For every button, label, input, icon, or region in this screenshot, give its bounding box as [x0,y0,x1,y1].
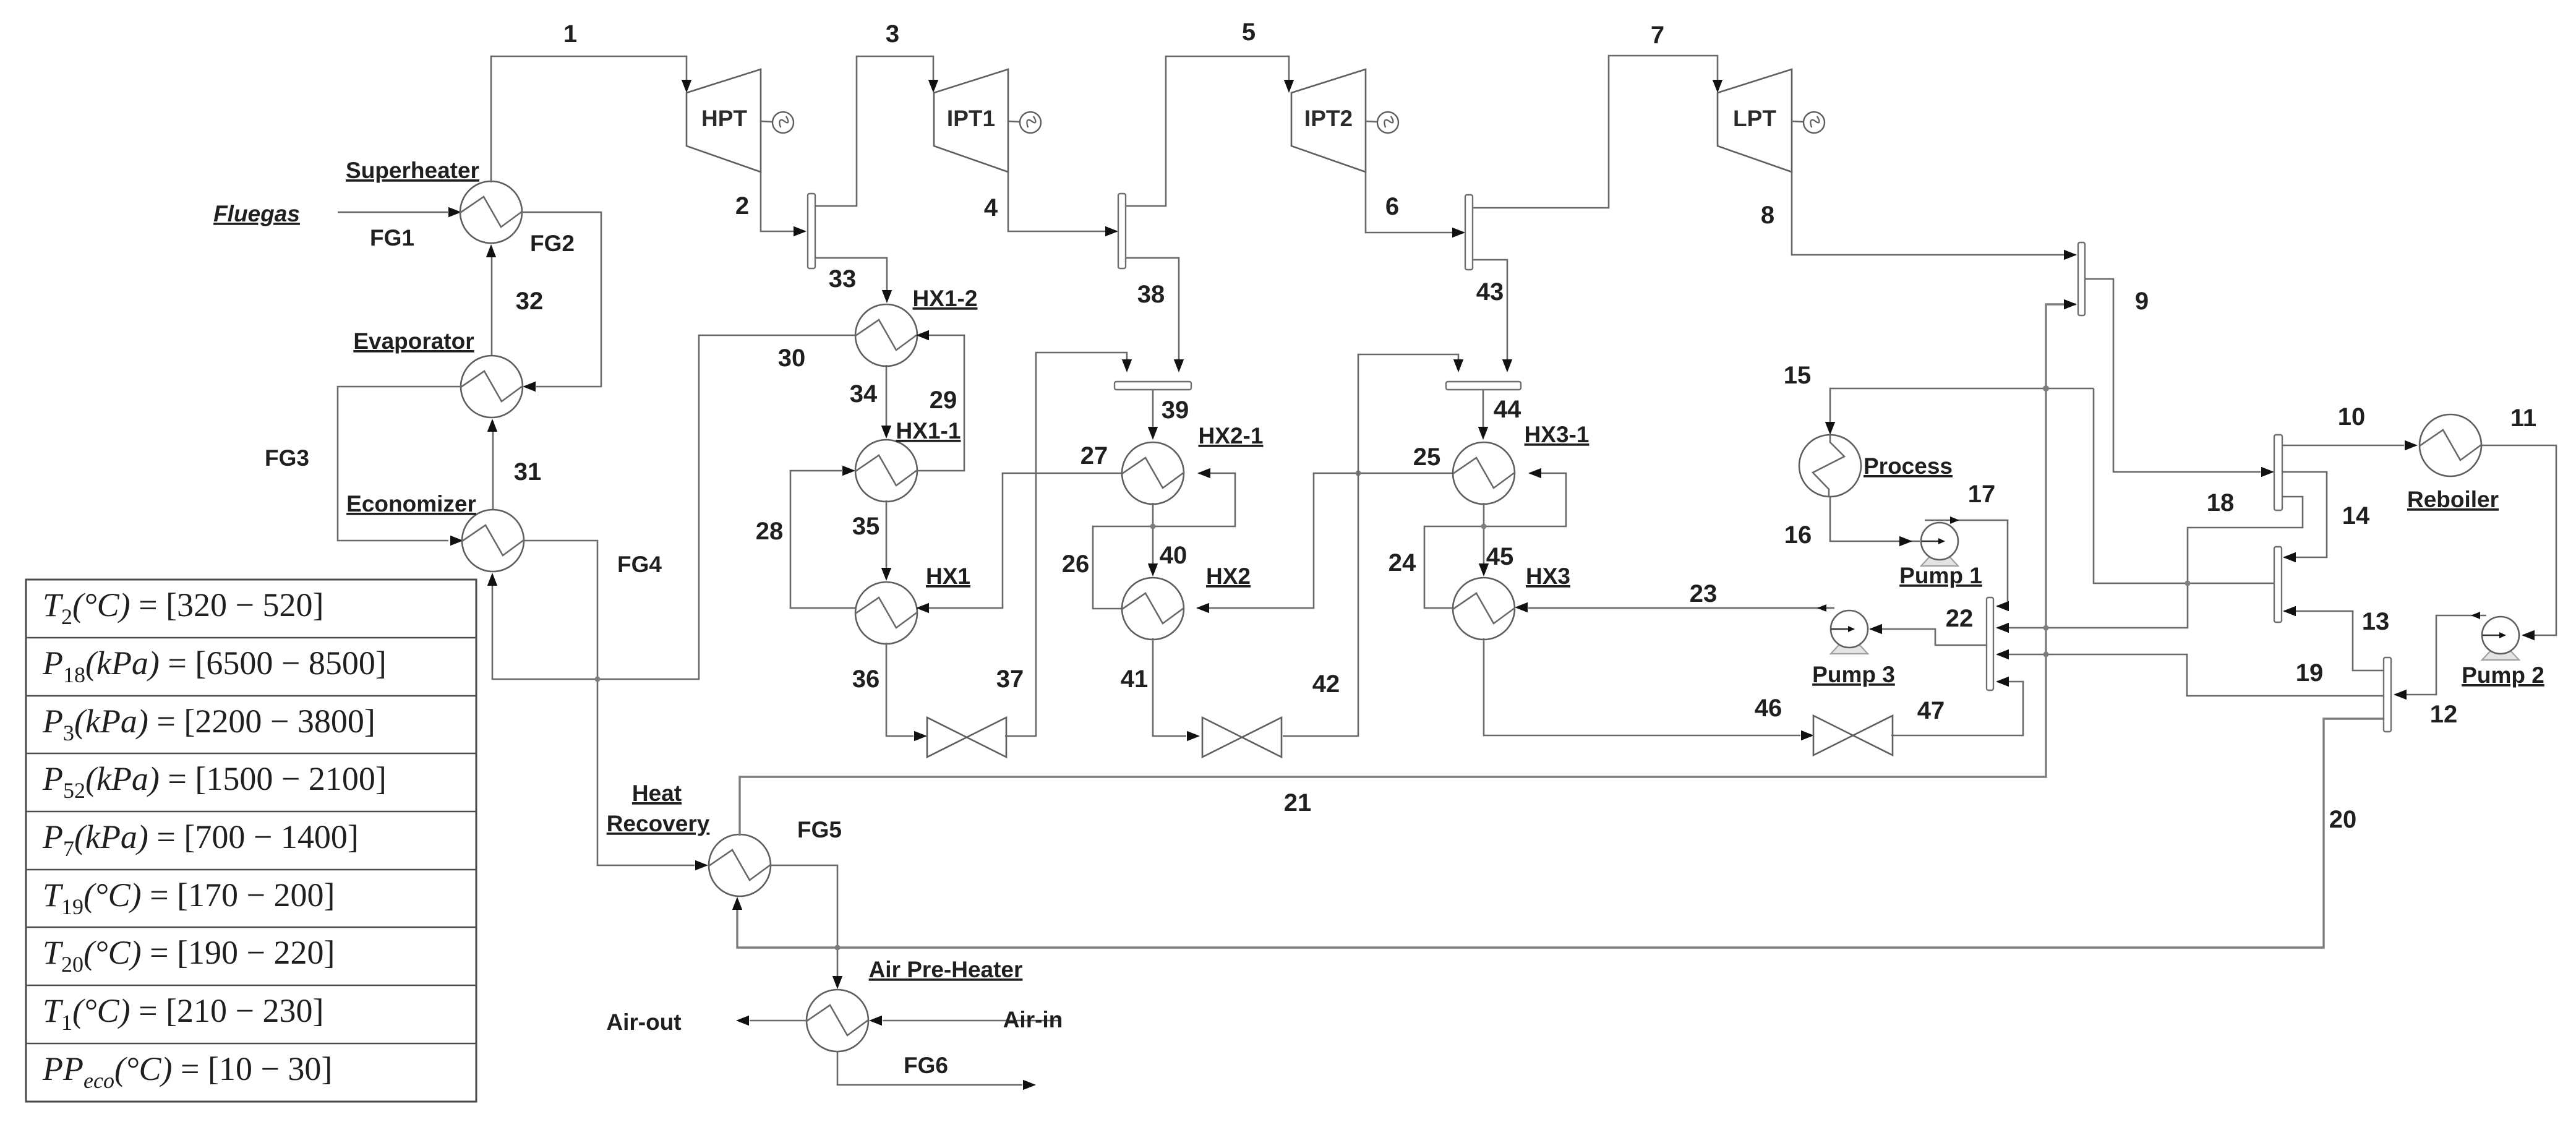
node crossing 19/21 [2043,652,2049,657]
wire 14 [2282,472,2327,557]
wire 8 [1792,172,2076,255]
svg-text:HX2: HX2 [1206,563,1251,589]
wire 19 [1997,654,2384,696]
wire FG5 to Air Pre-Heater [770,865,837,987]
wire 44 [1483,390,1484,437]
svg-text:43: 43 [1476,278,1504,306]
svg-text:23: 23 [1690,580,1718,607]
wire 39 [1152,390,1154,437]
heat exchanger HX3-1 [1453,442,1515,504]
wire 35 [886,500,888,578]
svg-text:P3(kPa) = [2200 − 3800]: P3(kPa) = [2200 − 3800] [42,703,375,745]
svg-text:47: 47 [1917,697,1945,724]
svg-text:38: 38 [1137,281,1165,308]
splitter after IPT2 [1465,195,1473,270]
valve V1 [927,717,1006,757]
wire Air-in [883,1020,1061,1022]
wire 26 [1093,473,1235,609]
svg-text:10: 10 [2338,403,2366,430]
heat exchanger HX1-2 [855,304,917,366]
svg-text:Reboiler: Reboiler [2407,487,2499,512]
svg-text:34: 34 [850,380,878,408]
svg-text:16: 16 [1784,521,1812,549]
svg-text:15: 15 [1784,362,1812,389]
generator of IPT1 [1008,121,1021,122]
splitter after IPT1 [1118,194,1126,268]
turbine LPT [1718,69,1792,172]
svg-text:Pump 2: Pump 2 [2462,662,2544,688]
svg-text:HX1-2: HX1-2 [913,286,978,311]
svg-text:Evaporator: Evaporator [353,328,474,354]
wire 10 [2282,445,2404,447]
svg-text:22: 22 [1946,605,1974,632]
wire 36 [886,643,914,736]
svg-text:HX3-1: HX3-1 [1525,422,1590,447]
node junction 21/15 [2043,385,2049,392]
mixer header 44 [1446,382,1521,390]
wire 45 [1483,503,1485,574]
heat exchanger HX1 [855,582,917,644]
header drain mix [2384,657,2391,732]
svg-text:T2(°C) = [320 − 520]: T2(°C) = [320 − 520] [43,586,324,629]
svg-text:12: 12 [2430,701,2458,728]
pump Pump 2 [2482,617,2519,660]
svg-text:32: 32 [516,288,544,315]
header before Reboiler [2274,435,2282,510]
header deaerator 22 [1987,597,1993,690]
wire 13 [2284,611,2391,670]
svg-text:Heat: Heat [632,781,682,806]
wire 16 [1830,497,1920,541]
wire FG6 [837,1051,1022,1085]
wire 40 [1152,503,1154,574]
generator of LPT [1792,121,1804,122]
node crossing FG4/feedwater [595,677,601,682]
wire 1 [491,56,687,182]
wire FG2 [521,212,601,387]
wire 25 [1197,473,1454,608]
svg-text:P52(kPa) = [1500 − 2100]: P52(kPa) = [1500 − 2100] [42,760,387,803]
svg-text:30: 30 [778,345,806,372]
svg-text:13: 13 [2362,608,2390,635]
svg-text:P18(kPa) = [6500 − 8500]: P18(kPa) = [6500 − 8500] [42,645,387,687]
svg-text:20: 20 [2329,806,2357,833]
turbine HPT [687,69,761,172]
wire 18 [1997,497,2303,628]
svg-text:21: 21 [1284,789,1312,816]
wire 27 [917,473,1123,608]
turbine IPT2 [1291,69,1366,172]
heat exchanger Heat Recovery FG5 [709,834,771,896]
wire 24 [1424,473,1566,608]
svg-text:Superheater: Superheater [346,158,479,183]
svg-text:2: 2 [735,192,749,220]
heat exchanger Superheater [460,181,522,243]
svg-text:Recovery: Recovery [607,811,710,836]
svg-text:8: 8 [1761,202,1774,229]
svg-text:25: 25 [1413,443,1441,471]
wire 46 [1484,638,1800,735]
svg-text:FG3: FG3 [265,445,309,471]
parameter table [26,580,476,1102]
svg-text:41: 41 [1121,666,1149,693]
svg-text:4: 4 [984,194,998,221]
svg-text:HX1: HX1 [926,563,970,589]
turbine IPT1 [934,69,1008,172]
svg-text:IPT1: IPT1 [947,106,995,131]
wire 28 [790,471,857,608]
heat exchanger Economizer [462,510,524,572]
svg-text:Air Pre-Heater: Air Pre-Heater [869,957,1023,982]
wire 32 [491,247,493,357]
wire 31 [492,421,494,511]
svg-text:Pump 3: Pump 3 [1812,662,1895,687]
wire 6 [1366,172,1464,233]
mixer header 39 [1115,382,1191,390]
wire 47 [1891,682,2023,735]
svg-text:14: 14 [2342,502,2370,529]
svg-text:HX3: HX3 [1526,563,1570,589]
wire FG4 [523,541,695,865]
wire 9 [2085,279,2261,472]
svg-text:26: 26 [1062,550,1090,578]
svg-text:6: 6 [1385,193,1399,220]
svg-text:17: 17 [1968,481,1996,508]
svg-text:FG1: FG1 [370,225,414,251]
wire 5 [1126,56,1289,206]
svg-text:18: 18 [2207,489,2235,516]
heat exchanger HX1-1 [855,440,917,502]
svg-text:36: 36 [852,666,880,693]
heat exchanger Air Pre-Heater [807,990,868,1051]
wire 23 [1528,607,1834,609]
generator of HPT [761,121,773,122]
pump Pump 1 [1921,523,1958,566]
svg-text:IPT2: IPT2 [1304,106,1353,131]
wire 42 [1283,354,1458,736]
heat exchanger HX3 [1453,578,1515,640]
generator of IPT2 [1366,121,1378,122]
wire 38 [1126,258,1179,370]
heat exchanger Evaporator [461,356,523,418]
node crossing 45/24 [1481,524,1487,529]
svg-text:24: 24 [1389,549,1416,576]
svg-text:HX1-1: HX1-1 [896,418,961,443]
svg-text:LPT: LPT [1733,106,1776,131]
node crossing 18/52 [2185,581,2191,586]
wire 34 [886,365,888,436]
svg-text:28: 28 [756,518,784,545]
svg-text:Fluegas: Fluegas [213,201,300,226]
svg-text:33: 33 [829,265,857,293]
svg-text:P7(kPa) = [700 − 1400]: P7(kPa) = [700 − 1400] [42,818,359,861]
heat exchanger HX2-1 [1122,442,1184,504]
svg-text:T1(°C) = [210 − 230]: T1(°C) = [210 − 230] [43,992,324,1035]
node crossing 40/26 [1150,524,1156,529]
heat exchanger Reboiler [2420,414,2481,476]
wire 7 [1473,56,1718,208]
svg-text:44: 44 [1494,396,1521,423]
svg-text:HPT: HPT [701,106,747,131]
svg-text:45: 45 [1486,543,1514,570]
wire 41 [1153,638,1186,736]
wire 3 [815,56,933,206]
pump Pump 3 [1831,610,1868,654]
header condensate mix [2274,547,2282,622]
wire Fluegas inlet [338,212,448,213]
valve V3 [1813,716,1893,755]
node crossing 25/42 [1356,471,1361,476]
svg-text:39: 39 [1162,396,1189,424]
wire 20 [737,719,2384,948]
wire 29 [916,335,964,471]
svg-text:FG5: FG5 [797,817,842,842]
svg-text:40: 40 [1160,542,1187,569]
wire 4 [1008,172,1117,231]
wire 11 [2482,445,2556,635]
svg-text:37: 37 [996,666,1024,693]
svg-text:Pump 1: Pump 1 [1899,563,1982,588]
svg-text:Economizer: Economizer [346,491,476,516]
svg-text:Air-out: Air-out [606,1009,681,1035]
svg-text:3: 3 [886,20,899,48]
wire 17 [1925,520,2008,606]
heat exchanger Process [1799,435,1861,497]
svg-text:FG2: FG2 [530,231,575,256]
wire to Pump 3 [1870,629,1987,645]
heat exchanger HX2 [1122,578,1184,640]
wire FG3 [338,387,462,541]
splitter after HPT [808,194,815,268]
svg-text:FG6: FG6 [904,1053,948,1078]
svg-text:Air-in: Air-in [1003,1007,1063,1032]
svg-text:Process: Process [1864,453,1953,479]
node crossing 20/FG5 [835,945,841,951]
wire Air-out [750,1020,808,1022]
wire 30 feedwater to economizer [492,335,857,679]
wire 37 [1005,353,1127,736]
svg-text:HX2-1: HX2-1 [1199,423,1264,448]
wire 21 [740,304,2076,836]
svg-text:T20(°C) = [190 − 220]: T20(°C) = [190 − 220] [43,934,335,977]
wire 43 [1473,260,1507,370]
wire 33 [815,258,887,301]
svg-text:1: 1 [563,20,577,48]
svg-text:11: 11 [2510,405,2536,432]
svg-text:35: 35 [852,513,880,540]
svg-text:31: 31 [514,458,542,486]
svg-text:27: 27 [1080,442,1108,469]
wire 12 [2395,615,2486,695]
wire 52 into header [2094,388,2274,583]
svg-text:7: 7 [1651,22,1664,49]
svg-text:9: 9 [2135,288,2149,315]
svg-text:FG4: FG4 [617,552,662,577]
wire 2 [761,172,805,231]
svg-text:19: 19 [2296,659,2324,687]
node crossing 18/21 [2043,625,2049,631]
svg-text:T19(°C) = [170 − 200]: T19(°C) = [170 − 200] [43,876,335,919]
svg-text:46: 46 [1755,695,1782,722]
valve V2 [1202,717,1282,757]
svg-text:5: 5 [1242,19,1256,46]
mixing header after LPT [2078,242,2085,315]
svg-text:29: 29 [930,387,957,414]
wire 15 [1830,388,2094,432]
svg-text:42: 42 [1312,670,1340,698]
